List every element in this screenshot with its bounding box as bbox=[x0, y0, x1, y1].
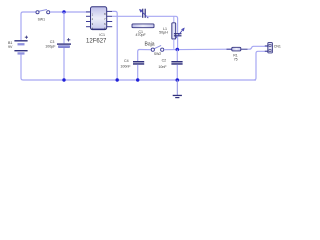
svg-text:10nF: 10nF bbox=[158, 65, 167, 69]
wire: L1 bottom lead bbox=[173, 39, 175, 49]
switch SW2 bbox=[151, 45, 164, 51]
wire: R1 to CN1 pin1 bbox=[248, 46, 268, 49]
wire: trimmer to corner and down bbox=[146, 16, 178, 33]
node: junction dot C4 on rail bbox=[136, 78, 139, 81]
wire: SW2 to junction and R1 bbox=[164, 48, 232, 51]
svg-text:75: 75 bbox=[234, 58, 238, 62]
svg-text:CN1: CN1 bbox=[274, 44, 281, 48]
capacitor C3 (electrolytic 100uF) bbox=[57, 38, 71, 48]
node: junction dot C2/ground on rail bbox=[176, 78, 180, 82]
node: junction dot tank/mid wire bbox=[176, 48, 180, 52]
wire: C2 to rail bbox=[176, 65, 178, 80]
svg-text:C2: C2 bbox=[162, 59, 167, 63]
svg-text:SW1: SW1 bbox=[38, 18, 45, 22]
node: junction dot pin8 branch on rail bbox=[116, 78, 119, 81]
trimmer capacitor 2 (to mid wire) bbox=[174, 28, 184, 49]
wire: battery to ground rail bbox=[21, 54, 256, 80]
capacitor C2 bbox=[171, 50, 182, 65]
connector CN1 bbox=[265, 43, 273, 53]
ic IC1 (PIC 12F627) bbox=[86, 7, 112, 31]
svg-text:Baja: Baja bbox=[144, 41, 154, 47]
wire: battery top lead up and right to switch SW1 bbox=[21, 12, 36, 40]
capacitor C1 (rect style) bbox=[132, 24, 154, 28]
resistor R1 bbox=[227, 47, 248, 51]
svg-text:12F627: 12F627 bbox=[86, 38, 107, 44]
svg-text:9V: 9V bbox=[8, 45, 13, 49]
svg-text:50µH: 50µH bbox=[159, 31, 168, 35]
wire: rail up to CN1 pin2 bbox=[254, 51, 268, 80]
node: junction dot at C3 branch bbox=[62, 10, 65, 13]
wire: pin8 right and down to ground rail bbox=[112, 11, 117, 80]
svg-text:100nF: 100nF bbox=[120, 65, 131, 69]
wire: pin7 to tank circuit bbox=[112, 15, 141, 17]
switch SW1 bbox=[36, 10, 50, 14]
trimmer capacitor (series) bbox=[140, 9, 149, 18]
node: junction dot C3 on rail bbox=[62, 78, 65, 81]
wire: mid wire from C4 corner through SW2 to CN1 bbox=[138, 50, 151, 62]
svg-text:C3: C3 bbox=[50, 40, 55, 44]
svg-text:C4: C4 bbox=[124, 59, 129, 63]
svg-text:SW2: SW2 bbox=[154, 52, 161, 56]
svg-text:IC1: IC1 bbox=[99, 33, 105, 37]
svg-text:100µF: 100µF bbox=[45, 44, 56, 48]
wire: SW1 to IC pin1 with junction to C3 bbox=[50, 11, 91, 13]
ground bbox=[173, 80, 182, 98]
battery B1 bbox=[14, 36, 28, 55]
svg-text:470pF: 470pF bbox=[135, 33, 146, 37]
wire: C4 to rail bbox=[137, 65, 139, 80]
capacitor C4 bbox=[133, 61, 144, 65]
wire: junction down to C3 bbox=[63, 12, 65, 43]
wire: C3 to ground rail bbox=[63, 48, 65, 80]
inductor L1 bbox=[173, 16, 175, 23]
